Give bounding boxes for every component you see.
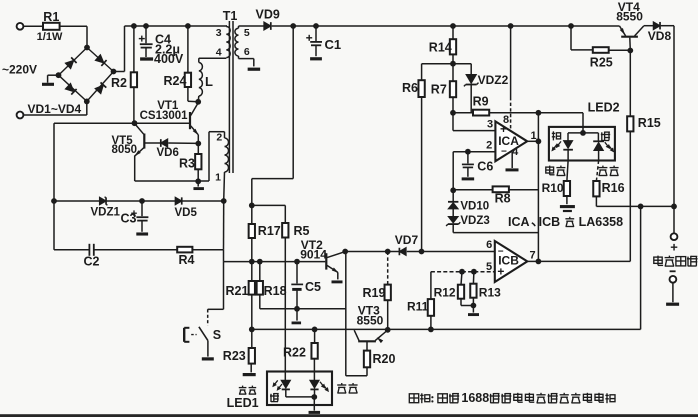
svg-text:VD8: VD8 <box>648 29 672 43</box>
svg-text:R1: R1 <box>43 10 59 24</box>
svg-text:ICB: ICB <box>539 215 561 229</box>
svg-text:8550: 8550 <box>616 10 643 24</box>
svg-text:R14: R14 <box>429 40 452 54</box>
svg-text:LA6358: LA6358 <box>579 215 624 229</box>
svg-text:R22: R22 <box>283 345 306 359</box>
svg-text:1688: 1688 <box>461 391 489 405</box>
svg-text:R21: R21 <box>226 284 249 298</box>
svg-text:R24: R24 <box>164 74 187 88</box>
svg-text:R4: R4 <box>179 253 195 267</box>
svg-text:8050: 8050 <box>112 144 138 156</box>
svg-text:R17: R17 <box>258 224 281 238</box>
svg-text:R15: R15 <box>638 116 661 130</box>
svg-text:C6: C6 <box>477 159 493 173</box>
svg-text:R8: R8 <box>495 191 511 205</box>
svg-text:ICA: ICA <box>508 215 530 229</box>
svg-text:R20: R20 <box>373 352 396 366</box>
svg-text:R9: R9 <box>473 95 489 109</box>
svg-text:VD1~VD4: VD1~VD4 <box>28 102 82 116</box>
svg-text:6: 6 <box>244 46 250 58</box>
svg-text:VDZ3: VDZ3 <box>460 215 489 227</box>
svg-text:2: 2 <box>486 139 492 151</box>
svg-text:400V: 400V <box>154 52 184 66</box>
svg-text:1: 1 <box>215 172 221 184</box>
svg-text:VD5: VD5 <box>175 207 198 219</box>
svg-text:3: 3 <box>216 27 222 39</box>
svg-text:4: 4 <box>216 47 222 59</box>
svg-text:R2: R2 <box>111 76 127 90</box>
svg-text:−: − <box>501 147 507 158</box>
svg-text:LED2: LED2 <box>588 101 620 115</box>
svg-text:R18: R18 <box>264 284 287 298</box>
svg-text:9014: 9014 <box>300 248 327 262</box>
svg-text:C3: C3 <box>121 211 137 225</box>
svg-text:R23: R23 <box>223 349 246 363</box>
svg-text:5: 5 <box>244 27 250 39</box>
svg-text:4: 4 <box>512 146 519 158</box>
svg-text:VDZ2: VDZ2 <box>478 73 509 87</box>
svg-text:8550: 8550 <box>357 314 384 328</box>
svg-text:+: + <box>670 239 678 254</box>
svg-text:R19: R19 <box>363 286 386 300</box>
svg-text:1/1W: 1/1W <box>37 31 63 43</box>
svg-text:C2: C2 <box>84 254 100 268</box>
svg-text:R3: R3 <box>179 157 195 171</box>
svg-text:VDZ1: VDZ1 <box>91 207 121 219</box>
svg-text:R7: R7 <box>431 83 447 97</box>
svg-text:ICB: ICB <box>498 254 519 268</box>
svg-text:R10: R10 <box>542 181 564 195</box>
svg-text:3: 3 <box>487 118 493 130</box>
svg-text:R16: R16 <box>602 181 625 195</box>
svg-text:C5: C5 <box>305 280 321 294</box>
svg-text:R6: R6 <box>402 81 418 95</box>
svg-text:CS13001: CS13001 <box>140 110 189 122</box>
svg-text:5: 5 <box>486 261 492 273</box>
svg-text:R13: R13 <box>479 286 501 300</box>
svg-text:VD9: VD9 <box>256 8 280 22</box>
svg-text:7: 7 <box>530 249 536 261</box>
svg-text:T1: T1 <box>223 9 238 23</box>
svg-text:LED1: LED1 <box>227 396 259 410</box>
svg-text:R5: R5 <box>294 224 310 238</box>
svg-text:6: 6 <box>486 239 492 251</box>
svg-text:R12: R12 <box>434 286 456 300</box>
svg-text:VD7: VD7 <box>395 233 419 247</box>
svg-text:R25: R25 <box>590 55 613 69</box>
svg-text:~220V: ~220V <box>2 63 37 77</box>
svg-text:R11: R11 <box>407 300 429 314</box>
svg-text:VD6: VD6 <box>157 147 179 159</box>
svg-text:2: 2 <box>216 131 222 143</box>
svg-text:S: S <box>213 328 221 342</box>
svg-text:C1: C1 <box>325 37 342 52</box>
svg-text:L: L <box>205 74 213 89</box>
svg-text:VD10: VD10 <box>460 201 489 213</box>
